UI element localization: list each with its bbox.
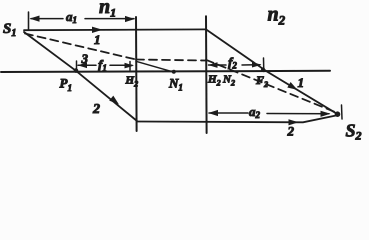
f1 left tick — [76, 61, 78, 70]
image point S2 dot — [335, 111, 341, 117]
ray 3 dashed incident (aimed at nodal point N1) — [25, 34, 136, 60]
svg-text:a1: a1 — [66, 9, 77, 25]
svg-text:H2: H2 — [207, 74, 221, 88]
svg-text:N2: N2 — [222, 74, 235, 88]
f2 left arrowhead — [208, 62, 218, 68]
a2 left arrowhead — [208, 110, 218, 116]
svg-text:S2: S2 — [346, 121, 362, 143]
a2 right arrowhead — [321, 111, 331, 117]
svg-text:N1: N1 — [168, 76, 183, 93]
svg-text:2: 2 — [287, 124, 295, 139]
svg-text:a2: a2 — [249, 104, 261, 120]
a1 right arrowhead — [125, 16, 135, 22]
optical axis — [1, 71, 330, 72]
arrowhead on ray 1 right — [287, 82, 297, 90]
arrowhead on ray 2 right — [289, 119, 299, 125]
f1 left arrowhead — [78, 63, 88, 69]
svg-text:1: 1 — [94, 32, 101, 47]
a2 right tick — [341, 105, 344, 119]
ray 1 incident segment (parallel to axis from S1) — [24, 28, 206, 31]
svg-text:f1: f1 — [98, 57, 107, 73]
svg-text:2: 2 — [92, 102, 100, 117]
svg-text:F2: F2 — [255, 73, 268, 89]
svg-text:n2: n2 — [268, 4, 286, 28]
a1 left arrowhead — [30, 16, 40, 22]
f1 right tick — [129, 62, 131, 71]
f1 dimension line — [78, 64, 132, 66]
principal plane H1 (left vertical) — [135, 17, 138, 131]
svg-text:1: 1 — [298, 75, 305, 90]
arrowhead on ray 1 left — [92, 27, 103, 33]
ray 2 emergent segment (parallel to axis to S2) — [137, 116, 336, 123]
f2 right arrowhead — [252, 62, 262, 68]
F2 tick — [263, 58, 265, 72]
ray 1 refracted segment (through F2 to S2) — [206, 29, 337, 113]
ray 2 incident segment (through front focus P1) — [24, 32, 137, 121]
a2 dimension line — [209, 112, 329, 115]
tick at S1 for a1 — [28, 12, 30, 30]
svg-text:f2: f2 — [228, 55, 237, 71]
nodal point N1 dot — [172, 70, 176, 74]
svg-text:n1: n1 — [99, 0, 116, 20]
a1 dimension line — [31, 18, 134, 20]
arrowhead on ray 2 left — [109, 96, 119, 105]
rear focal point F2 dot — [261, 67, 265, 71]
front focal point P1 dot — [74, 68, 79, 73]
solid segment of nodal ray to N1 — [136, 61, 174, 72]
f2 dimension line — [209, 64, 261, 66]
ray 3 dashed emergent (from N2 to S2) — [206, 60, 335, 112]
svg-text:S1: S1 — [3, 21, 16, 39]
ray 3 dashed between planes — [136, 60, 206, 61]
svg-text:3: 3 — [81, 51, 89, 66]
svg-text:P1: P1 — [60, 76, 72, 94]
f1 right arrowhead — [125, 63, 135, 69]
principal plane H2 (right vertical) — [205, 16, 208, 133]
